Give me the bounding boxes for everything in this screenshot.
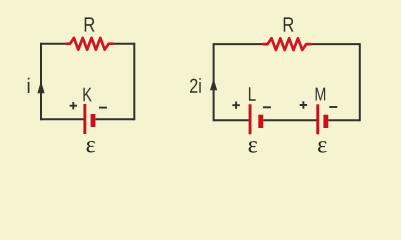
label R (right circuit) [284, 17, 294, 31]
label epsilon (battery K emf) [87, 141, 95, 153]
wire: right circuit top-left segment [214, 43, 265, 45]
battery K: short negative plate [91, 114, 96, 127]
wire: left circuit bottom-right segment [95, 118, 134, 120]
battery M: long positive plate [316, 104, 319, 134]
battery L: plus sign [232, 102, 239, 109]
label 2i [190, 78, 201, 93]
battery L: minus sign [263, 106, 271, 108]
label R (left circuit) [85, 17, 95, 31]
wire: left circuit bottom-left segment [41, 118, 85, 120]
label L [249, 87, 256, 101]
battery K: long positive plate [83, 104, 86, 134]
label epsilon (battery M emf) [318, 141, 326, 153]
wire: left circuit left side [40, 43, 42, 121]
battery M: plus sign [300, 101, 307, 108]
wire: left circuit top-left segment [41, 43, 67, 45]
battery M: short negative plate [323, 115, 328, 128]
current arrow i (left circuit) [37, 81, 44, 94]
label i [28, 78, 30, 93]
wire: left circuit right side [133, 43, 135, 121]
label epsilon (battery L emf) [249, 141, 257, 153]
resistor R (right circuit) [263, 38, 311, 50]
battery K: plus sign [70, 102, 77, 109]
resistor R (left circuit) [67, 38, 113, 50]
battery M: minus sign [329, 106, 337, 108]
wire: right circuit bottom-left segment [214, 119, 250, 121]
wire: right circuit bottom-middle segment [263, 119, 316, 121]
battery L: long positive plate [249, 104, 252, 134]
battery L: short negative plate [258, 115, 263, 128]
wire: right circuit left side [213, 43, 215, 121]
wire: right circuit right side [359, 43, 361, 121]
current arrow 2i (right circuit) [210, 79, 217, 91]
label M [316, 88, 326, 101]
wire: left circuit top-right segment [113, 43, 135, 45]
wire: right circuit top-right segment [310, 43, 360, 45]
battery K: minus sign [99, 107, 107, 109]
wire: right circuit bottom-right segment [328, 119, 360, 121]
label K [83, 88, 91, 101]
